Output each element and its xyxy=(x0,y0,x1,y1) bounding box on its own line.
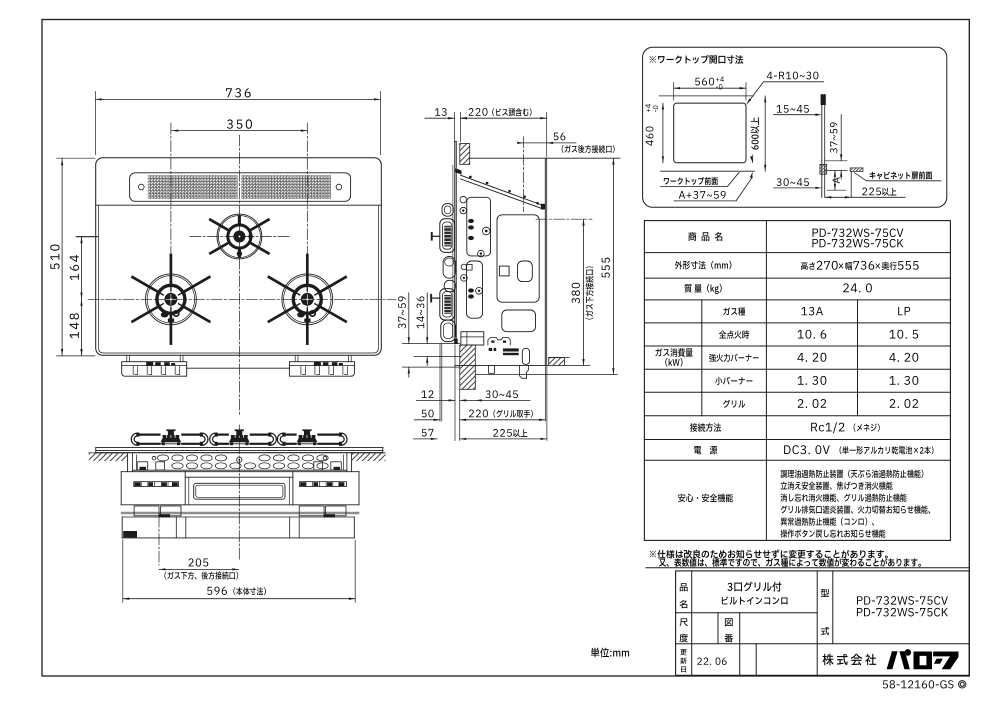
dim 460 +4-0 xyxy=(662,103,664,163)
text label: ガス消費量 xyxy=(655,348,662,356)
burner outer rings xyxy=(146,274,197,325)
Paloma logo katakana PA left stroke xyxy=(887,651,898,669)
text label: 510 xyxy=(50,263,59,269)
burner cap front xyxy=(229,438,250,443)
front view: end screws xyxy=(136,455,138,470)
front view: left drawer fronts xyxy=(134,506,159,516)
text label: 10. 5 xyxy=(889,330,895,339)
text label: 13 xyxy=(435,108,440,116)
text label: 消し忘れ消火機能、グリル過熱防止機能 xyxy=(781,494,787,502)
burner hub xyxy=(301,293,314,306)
text label: ガス種 xyxy=(723,307,730,315)
side view: front panel xyxy=(454,142,456,344)
dim A xyxy=(834,170,836,176)
text label: Rc1/2 xyxy=(811,423,817,432)
text label: グリル排気口遮炎装置、火力切替お知らせ機能、 xyxy=(781,506,787,514)
text label: 30~45 xyxy=(776,178,781,186)
text label: 148 xyxy=(70,332,79,338)
dim 15~45 xyxy=(774,114,818,116)
side view: screws and bolts xyxy=(460,196,467,203)
text label: 名 xyxy=(680,600,688,608)
text label: グリル xyxy=(723,400,730,408)
text label: 736 xyxy=(853,261,859,270)
front view: grill window xyxy=(194,483,285,499)
front view: burner box walls xyxy=(127,453,129,472)
vent mesh right half xyxy=(241,175,331,199)
top view: center vertical centerline xyxy=(238,135,240,416)
text label: 尺 xyxy=(680,618,688,626)
text label: 2. 02 xyxy=(798,399,804,408)
top view: base bracket center strip xyxy=(187,367,290,369)
text label: DC3. 0V xyxy=(784,445,790,454)
side view: rounded tab xyxy=(522,348,529,364)
front view: main body xyxy=(121,471,359,473)
text label: 2. 02 xyxy=(890,399,896,408)
side view: cabinet bottom line xyxy=(475,374,617,376)
side view: dim 57 xyxy=(414,438,438,440)
slope screw nubs xyxy=(469,176,472,178)
text label: 全点火時 xyxy=(719,330,726,338)
text label: 596 xyxy=(207,587,212,595)
dim 30~45 right xyxy=(774,187,818,189)
front view: gas port dash line xyxy=(158,516,160,565)
burner cap front xyxy=(297,438,318,443)
grate curl left xyxy=(279,435,284,444)
text label: 10. 6 xyxy=(798,330,804,339)
text label: （メネジ） xyxy=(854,424,856,432)
text label: 37~59 xyxy=(830,148,837,153)
text label: 日 xyxy=(681,666,686,672)
text label: ※仕様は改良のためお知らせせずに変更することがあります。 xyxy=(650,551,656,558)
side view: handle hole rounded rect xyxy=(518,261,533,282)
front view: center dash-dot line xyxy=(238,425,240,560)
front view: box vent ovals row2 xyxy=(172,463,183,469)
front view: center igniter mark xyxy=(237,457,242,462)
side view: unit bottom line xyxy=(455,364,549,366)
text label: （kW） xyxy=(665,358,667,366)
front view: box small holes and brackets xyxy=(152,456,156,460)
text label: 220 xyxy=(469,108,474,116)
side view: dim 13 xyxy=(425,117,454,119)
text label: ※ワークトップ開口寸法 xyxy=(650,56,656,63)
side view: lower rounded rect xyxy=(502,310,536,332)
top view: base bracket right block xyxy=(289,362,354,377)
top view: dim 350 xyxy=(172,130,307,132)
side view: dim 30~45 xyxy=(460,399,530,401)
text label: 型 xyxy=(821,589,829,597)
text label: ‐0 xyxy=(716,86,718,89)
text label: 操作ボタン戻し忘れお知らせ機能 xyxy=(781,530,788,538)
text label: （単一形アルカリ乾電池×2本） xyxy=(840,446,842,454)
text label: 380 xyxy=(572,298,580,303)
grate curl right xyxy=(270,435,275,444)
text label: 4‐R10~30 xyxy=(767,72,773,80)
top view: dim 164 xyxy=(81,237,83,299)
text label: ビルトインコンロ xyxy=(722,597,729,605)
text label: 30~45 xyxy=(485,390,490,398)
front view: dark foot block xyxy=(123,531,137,537)
side view: vent grille stripes xyxy=(503,348,519,351)
side view: small square cutout xyxy=(499,266,509,276)
text label: （グリル取手） xyxy=(493,410,495,418)
text label: 接続方法 xyxy=(690,423,697,432)
text label: 3口グリル付 xyxy=(727,583,732,591)
cabinet door face hatch bar xyxy=(850,168,863,172)
top view: dim 736 xyxy=(95,98,380,100)
text label: 37~59 xyxy=(398,324,406,329)
side view: sloped top plate xyxy=(461,175,544,205)
text label: 14~36 xyxy=(417,323,425,328)
side view: foot left xyxy=(489,365,495,373)
burner cap front xyxy=(161,438,182,443)
burner grate spokes xyxy=(185,277,210,291)
front view: right drawer fronts xyxy=(299,506,324,516)
burner igniter parts xyxy=(297,312,305,318)
grate curl left xyxy=(211,435,216,444)
side view: knob stack hook 2 xyxy=(444,280,455,291)
worktop opening box frame xyxy=(643,47,947,207)
text label: 225 xyxy=(493,429,498,437)
text label: （ガス後方接続口） xyxy=(562,145,564,153)
text label: 商 品 名 xyxy=(688,232,696,241)
side view: dim 225 min xyxy=(460,438,547,440)
text label: 更 xyxy=(680,649,686,655)
text label: 度 xyxy=(679,634,687,642)
top view: center burner horizontal centerline xyxy=(190,236,290,238)
text label: 1. 30 xyxy=(889,376,895,385)
side view: dim 220 screw head incl xyxy=(461,117,547,119)
side view: dim 220 grill handle xyxy=(460,419,546,421)
label 4-R10~30 xyxy=(764,81,824,83)
burner outer rings xyxy=(282,274,333,325)
text label: 13A xyxy=(801,307,807,315)
side view: knob stack top hook xyxy=(442,204,453,217)
text label: 15~45 xyxy=(777,105,782,113)
text label: 24. 0 xyxy=(843,283,849,292)
text label: 調理油過熱防止装置（天ぷら油過熱防止機能） xyxy=(781,470,787,478)
text label: 225 xyxy=(862,188,867,196)
text label: 質 量（kg） xyxy=(684,284,691,293)
dim 560 +4-0 xyxy=(674,87,746,89)
side view: lower-left tall rounded rect xyxy=(467,261,483,318)
rear gas port centerline xyxy=(523,137,525,212)
burner grate ring xyxy=(293,285,321,313)
text label: キャビネット扉前面 xyxy=(870,172,876,179)
dim 225 min right xyxy=(825,196,905,198)
vent screw hole right xyxy=(336,184,342,190)
front view: worktop line and hatch right xyxy=(352,452,386,454)
text label: 番 xyxy=(725,634,734,642)
front view: right button strip xyxy=(300,482,347,487)
cabinet door face line xyxy=(850,171,852,197)
top view: dim 148 xyxy=(81,299,83,355)
vent screw hole left xyxy=(139,184,145,190)
text label: 強火力バーナー xyxy=(709,354,716,362)
text label: 新 xyxy=(680,658,687,664)
side view: knob 1 xyxy=(440,219,455,253)
side view: middle capsule xyxy=(443,257,455,279)
vent mesh left half xyxy=(148,175,238,199)
text label: 品 xyxy=(680,583,688,591)
text label: 小バーナー xyxy=(715,377,722,385)
cabinet wall section lines xyxy=(821,94,823,197)
dim 37~59 right xyxy=(840,115,842,161)
text label: 57 xyxy=(422,429,427,437)
worktop back line xyxy=(659,95,753,97)
text label: 以上 xyxy=(513,429,520,437)
side view: dim 50 xyxy=(415,419,441,421)
text label: 外形寸法（mm） xyxy=(675,261,682,269)
top view: left burner centerline vertical xyxy=(170,123,172,341)
dim 600 min xyxy=(764,96,766,171)
text label: × xyxy=(875,263,880,268)
text label: 以上 xyxy=(882,188,889,196)
title block frame xyxy=(676,571,970,675)
text label: 1. 30 xyxy=(798,376,804,385)
burner grate ring xyxy=(157,285,185,313)
text label: 736 xyxy=(226,88,232,97)
center burner xyxy=(217,214,262,259)
side view: knob 2 xyxy=(440,289,455,320)
side view: foot bracket right xyxy=(520,365,529,378)
side view: rear cabinet hatch block xyxy=(549,358,565,366)
text label: 205 xyxy=(188,558,193,566)
text label: PD‐732WS‐75CV xyxy=(813,229,819,237)
side view: bottom bracket with bumps xyxy=(488,338,510,345)
text label: 株式会社 xyxy=(822,654,833,666)
text label: 555 xyxy=(898,261,904,270)
knob 2 pivot pin xyxy=(431,297,440,299)
text label: 220 xyxy=(469,410,474,418)
text label: 50 xyxy=(422,410,427,418)
text label: 56 xyxy=(554,133,559,141)
side view: small dark feet blocks xyxy=(489,348,492,351)
Paloma logo PA right stroke xyxy=(899,651,910,669)
text label: 式 xyxy=(821,627,829,635)
base feet ticks left xyxy=(132,367,134,375)
side view: inner panel small rounded rect xyxy=(467,197,491,256)
base connecting stubs xyxy=(126,355,128,361)
note underline xyxy=(646,567,969,569)
front view: left button strip xyxy=(134,482,179,487)
side view: dim 14~36 xyxy=(426,293,428,344)
text label: 図 xyxy=(725,618,733,626)
text label: 270 xyxy=(817,261,823,270)
text label: （ガス下方接続口） xyxy=(586,317,594,319)
text label: 奥行 xyxy=(882,262,889,270)
text label: 電 源 xyxy=(694,446,701,454)
text label: LP xyxy=(898,307,902,315)
text label: 600以上 xyxy=(752,145,759,149)
top view: grill exhaust vent panel xyxy=(130,173,351,202)
side view: bottom dim extension lines xyxy=(439,344,441,421)
text label: 立消え安全装置、焦げつき消火機能 xyxy=(781,482,787,490)
burner hub xyxy=(165,293,178,306)
text label: （ビス頭含む） xyxy=(492,108,494,116)
text label: 単位:mm xyxy=(591,648,600,658)
front view: base xyxy=(122,516,354,518)
text label: +4 xyxy=(716,78,719,82)
text label: 58‐12160‐GS xyxy=(883,680,888,688)
top view: burners horizontal centerline xyxy=(88,298,396,300)
front view: box vent ovals row1 xyxy=(157,455,168,461)
text label: 460 xyxy=(646,140,654,146)
front view: dim 205 xyxy=(159,568,239,570)
top view: right burner centerline vertical xyxy=(306,123,308,341)
center burner igniter arrow xyxy=(249,234,255,239)
worktop front line xyxy=(661,170,755,172)
cabinet wall hatch bottom xyxy=(820,164,827,174)
side view: bottom front step xyxy=(461,332,484,345)
front view: top plate xyxy=(96,447,383,449)
text label: +4 xyxy=(646,109,650,112)
burner grate spokes xyxy=(321,277,346,291)
top view: base bracket left block xyxy=(122,362,187,377)
side view: worktop section hatch top xyxy=(460,144,470,165)
side view: dim 12 xyxy=(417,399,456,401)
front view: lower trim lines xyxy=(121,511,359,513)
text label: 幅 xyxy=(845,262,852,270)
side view: dim 37~59 left xyxy=(408,293,410,344)
side view: top plate front lip xyxy=(455,168,461,174)
side view: worktop surface line xyxy=(470,157,620,159)
opening rectangle xyxy=(674,103,746,163)
side view: dim 555 xyxy=(612,158,614,374)
Paloma logo katakana MA xyxy=(933,652,958,670)
text label: ワークトップ前面 xyxy=(664,178,669,184)
side view: left cabinet panel hatch xyxy=(460,345,476,389)
text label: PD‐732WS‐75CV xyxy=(857,596,863,604)
Paloma logo katakana RO xyxy=(914,652,933,670)
extension lines 13/220 xyxy=(454,112,456,141)
grate curl left xyxy=(133,435,138,444)
dim A+37~59 leader xyxy=(674,200,736,202)
side view: big inner rounded rect xyxy=(497,215,539,302)
top view: cooktop body outline xyxy=(96,158,382,356)
text label: PD‐732WS‐75CK xyxy=(857,608,863,616)
text label: A xyxy=(833,177,840,183)
text label: （ガス下方、後方接続口） xyxy=(164,572,166,580)
text label: 安心・安全機能 xyxy=(678,494,685,502)
burner igniter parts xyxy=(161,312,169,318)
side view: front ref lines xyxy=(402,343,460,345)
side view: back panel edge xyxy=(544,158,546,365)
front view: worktop line and hatch left xyxy=(89,452,128,454)
text label: × xyxy=(839,263,844,268)
text label: 350 xyxy=(227,119,233,128)
grate curl right xyxy=(341,435,346,444)
spec table grid xyxy=(644,221,950,541)
text label: 又、表数値は、標準ですので、ガス種によって数値が変わることがあります。 xyxy=(659,559,666,567)
text label: 560 xyxy=(695,78,700,86)
text label: 4. 20 xyxy=(889,353,895,362)
text label: 22. 06 xyxy=(697,657,702,664)
front view: dim 596 xyxy=(123,598,355,600)
text label: A+37~59 xyxy=(679,191,685,199)
text label: 164 xyxy=(70,274,79,280)
text label: 異常過熱防止機能（コンロ）、 xyxy=(781,518,787,526)
cabinet wall hatch top xyxy=(821,94,826,105)
side view: dim 380 gas down port xyxy=(583,219,585,365)
Paloma logo handakuten circle xyxy=(905,649,912,656)
side view: grill door handle capsule xyxy=(441,320,456,342)
side view: dim 56 rear gas port xyxy=(518,142,576,144)
top view: dim 510 xyxy=(61,159,63,356)
text label: ‐0 xyxy=(654,110,657,112)
text label: 12 xyxy=(421,390,426,398)
text label: 高さ xyxy=(801,262,808,270)
text label: （本体寸法） xyxy=(233,587,235,595)
text label: 4. 20 xyxy=(797,353,803,362)
text label: 555 xyxy=(602,272,610,277)
registered mark xyxy=(958,680,966,688)
knob 1 pivot pin xyxy=(432,235,440,237)
grate curl right xyxy=(202,435,207,444)
side view: rear gas connection centerline horizontal xyxy=(536,218,592,220)
label cabinet door front face xyxy=(867,180,942,182)
label worktop front face xyxy=(661,185,728,187)
text label: PD‐732WS‐75CK xyxy=(812,239,818,247)
